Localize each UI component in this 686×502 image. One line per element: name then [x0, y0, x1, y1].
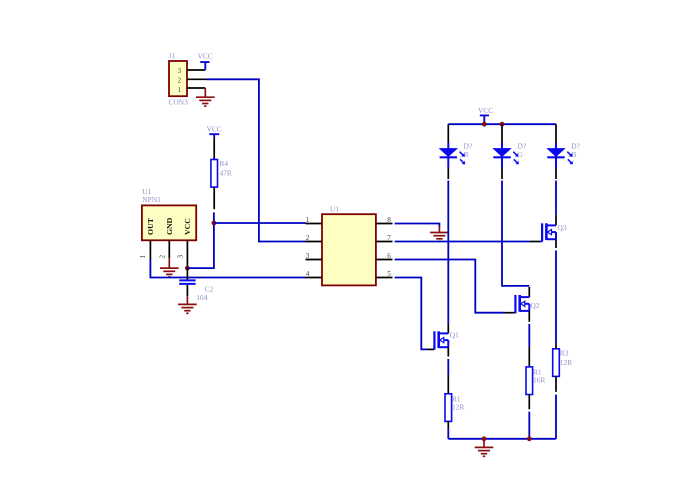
- ground (U1 pin 8): [430, 226, 449, 241]
- LED D? (B): [547, 149, 573, 165]
- IC U1: [306, 214, 393, 285]
- wire Q3 source to R3: [555, 239, 557, 349]
- svg-text:GND: GND: [165, 217, 174, 235]
- svg-text:G: G: [518, 150, 524, 159]
- svg-text:Q1: Q1: [450, 331, 459, 340]
- junction node rail ground tap: [482, 436, 487, 441]
- svg-text:R4: R4: [220, 159, 229, 168]
- wire U1 pin 8 to ground: [395, 224, 440, 227]
- wire LED3 cathode to Q3 drain: [555, 157, 557, 225]
- svg-text:U1: U1: [330, 205, 339, 214]
- svg-text:Q2: Q2: [531, 301, 540, 310]
- capacitor C2: [179, 268, 195, 296]
- svg-text:3: 3: [178, 67, 182, 75]
- module U1 NPN1: [142, 205, 196, 268]
- wire VCC to R4: [213, 138, 215, 160]
- wire U1 pin 7 to Q3 gate: [395, 241, 542, 243]
- wire LED1 cathode down: [447, 157, 449, 333]
- svg-text:J1: J1: [169, 51, 176, 60]
- svg-text:D?: D?: [518, 141, 527, 150]
- svg-text:5: 5: [387, 270, 391, 278]
- svg-text:R3: R3: [560, 348, 569, 357]
- svg-text:1: 1: [178, 86, 182, 94]
- wire Q1 source to R1 (12R): [447, 347, 449, 394]
- junction node rail R1 tap: [527, 436, 532, 441]
- svg-text:8: 8: [387, 216, 391, 224]
- power VCC (J1 pin 3): [198, 52, 213, 71]
- wire U1 pin 6 to Q2 gate: [395, 260, 516, 313]
- power VCC (LED rail): [478, 106, 493, 124]
- wire node to U1 pin 1: [214, 222, 306, 224]
- wire R4 to node: [213, 187, 215, 209]
- connector J1: [169, 61, 207, 96]
- svg-text:47R: 47R: [220, 169, 232, 178]
- ground (J1 pin 1): [196, 88, 215, 106]
- LED D? (R): [440, 149, 466, 165]
- junction node VCC at NPN1 pin 3: [185, 266, 190, 271]
- wire bottom ground rail: [448, 438, 556, 440]
- svg-text:16R: 16R: [533, 376, 545, 385]
- svg-text:7: 7: [387, 234, 391, 242]
- power VCC (R4): [207, 125, 222, 138]
- svg-text:VCC: VCC: [183, 218, 192, 235]
- transistor Q1: [434, 331, 448, 349]
- svg-text:1: 1: [306, 216, 310, 224]
- transistor Q3: [542, 223, 556, 241]
- svg-text:B: B: [572, 150, 577, 159]
- resistor R1 (16R): [526, 367, 533, 395]
- wire R1 (16R) to rail: [528, 395, 530, 439]
- wire VCC top rail: [448, 123, 556, 125]
- resistor R1 (12R): [445, 394, 452, 422]
- svg-text:12R: 12R: [452, 402, 464, 411]
- wire U1 pin 5 to Q1 gate: [395, 278, 435, 350]
- svg-text:D?: D?: [571, 141, 580, 150]
- svg-text:1: 1: [139, 255, 147, 259]
- wire NPN1 OUT to U1 pin 4: [150, 259, 305, 278]
- wire Q2 source to R1 (16R): [528, 311, 530, 367]
- svg-text:3: 3: [306, 252, 310, 260]
- LED D? (G): [493, 149, 519, 165]
- wire rail to LED1: [447, 124, 449, 142]
- svg-text:R: R: [464, 150, 469, 159]
- wire NPN1 VCC node to R4 column: [187, 223, 214, 268]
- svg-text:VCC: VCC: [198, 52, 213, 61]
- junction node LED2 tap: [500, 122, 505, 127]
- ground (bottom rail): [475, 439, 494, 457]
- svg-text:OUT: OUT: [146, 217, 155, 235]
- svg-text:3: 3: [177, 255, 185, 259]
- svg-text:NPN1: NPN1: [142, 195, 161, 204]
- ground (NPN1 GND pin): [160, 258, 179, 277]
- svg-text:4: 4: [306, 270, 310, 278]
- svg-text:2: 2: [306, 234, 310, 242]
- resistor R3: [553, 349, 560, 377]
- svg-text:104: 104: [196, 293, 207, 302]
- junction node R4 / U1 pin 1: [212, 221, 217, 226]
- wire rail to LED3: [555, 124, 557, 142]
- resistor R4: [211, 160, 218, 188]
- wire net J1.2 to U1.2: [207, 79, 306, 241]
- wire rail to LED2: [501, 124, 503, 142]
- svg-text:VCC: VCC: [207, 125, 222, 134]
- svg-text:2: 2: [178, 77, 182, 85]
- svg-text:VCC: VCC: [478, 106, 493, 115]
- wire R1 (12R) to rail: [447, 421, 449, 438]
- svg-text:Q3: Q3: [558, 223, 567, 232]
- transistor Q2: [515, 295, 529, 313]
- svg-text:6: 6: [387, 252, 391, 260]
- wire LED2 cathode to Q2 drain: [502, 157, 529, 297]
- ground (C2): [178, 296, 197, 313]
- svg-text:12R: 12R: [560, 358, 572, 367]
- wire R3 to rail: [555, 376, 557, 438]
- junction node VCC rail: [482, 122, 487, 127]
- svg-text:D?: D?: [464, 141, 473, 150]
- svg-text:2: 2: [159, 255, 167, 259]
- svg-text:CON3: CON3: [169, 98, 189, 107]
